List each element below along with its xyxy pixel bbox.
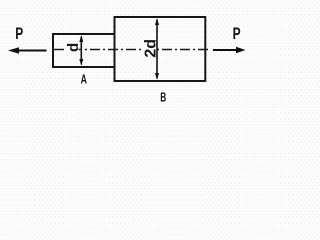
svg-text:P: P [233, 24, 241, 43]
svg-text:P: P [15, 24, 23, 43]
svg-text:B: B [160, 90, 166, 104]
svg-text:d: d [65, 43, 82, 52]
svg-text:2d: 2d [143, 39, 160, 58]
svg-text:A: A [81, 72, 87, 86]
